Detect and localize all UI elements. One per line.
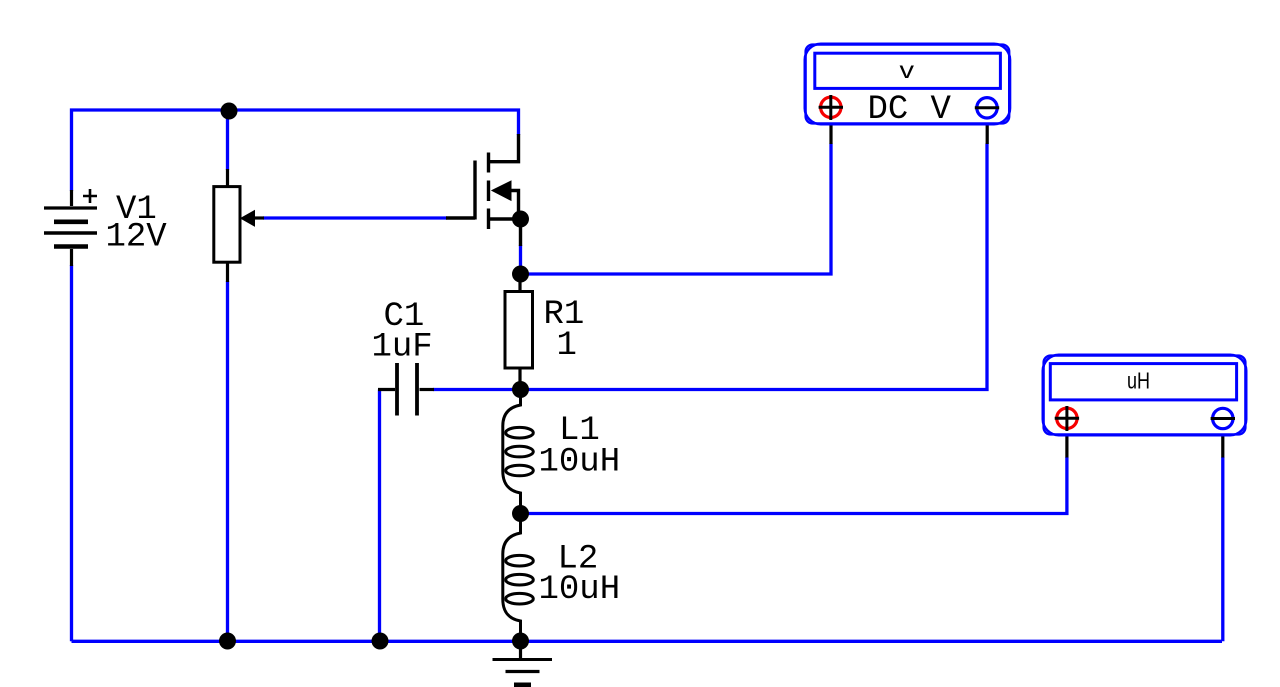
channel bar middle [487, 181, 490, 202]
voltmeter plus terminal [819, 95, 843, 120]
svg-text:uH: uH [1127, 368, 1150, 394]
wire top rail from battery plus up and across to MOSFET drain [72, 110, 519, 191]
capacitor C1 [378, 363, 434, 416]
gate lead [446, 216, 475, 219]
wire C1 right plate to node B [433, 388, 521, 391]
wire battery minus down to ground bus [70, 265, 73, 641]
ground [493, 647, 553, 685]
inductance meter minus terminal [1211, 408, 1235, 428]
inductance meter U2 body [1043, 355, 1246, 435]
wire ground bus across bottom [72, 640, 1223, 643]
drain pin [489, 134, 519, 162]
inductance meter pin stubs [1067, 437, 1223, 458]
svg-text:10uH: 10uH [539, 571, 621, 609]
source pin [519, 219, 522, 246]
potentiometer body [214, 169, 264, 282]
channel bar bottom [487, 209, 490, 230]
junction dot MOSFET source [512, 211, 529, 228]
gate bar [473, 161, 476, 220]
wire C1 left plate down to ground bus [378, 390, 381, 642]
battery V1 [44, 189, 97, 266]
wire gate from potentiometer wiper to MOSFET gate [263, 216, 447, 219]
junction dot ground bus at L2 [512, 633, 529, 650]
svg-text:10uH: 10uH [539, 443, 621, 481]
svg-text:1uF: 1uF [372, 328, 433, 366]
inductor L2 [503, 514, 534, 642]
potentiometer wiper arrow [241, 211, 255, 226]
junction dot node A (R1 top) [512, 266, 529, 283]
voltmeter U1 body [805, 44, 1010, 124]
MOSFET body arrow [492, 181, 511, 200]
resistor R1 [505, 282, 533, 384]
channel bar top [487, 153, 490, 173]
wire node C to uH meter plus terminal [521, 457, 1067, 514]
wire node B to voltmeter minus terminal [521, 144, 988, 390]
junction dot top rail / potentiometer [221, 103, 238, 120]
wire MOSFET source down to node A [519, 245, 522, 270]
voltmeter pin stubs [831, 126, 987, 145]
junction dot node C (L1-L2) [512, 505, 529, 522]
inductor L1 [503, 391, 534, 514]
svg-text:V: V [931, 91, 952, 129]
svg-text:12V: 12V [106, 219, 168, 257]
svg-text:DC: DC [868, 91, 909, 129]
svg-text:v: v [900, 57, 915, 83]
svg-text:1: 1 [557, 327, 577, 365]
wire node A to voltmeter plus terminal [521, 144, 832, 275]
junction dot ground bus at C1 [372, 633, 389, 650]
wire potentiometer bottom to ground bus [226, 281, 229, 641]
junction dot node B (R1 bottom / C1) [512, 381, 529, 398]
body connection to source [489, 191, 521, 220]
junction dot ground bus at potentiometer [219, 633, 236, 650]
inductance meter plus terminal [1055, 406, 1079, 431]
wire uH meter minus terminal down to ground bus [1221, 457, 1224, 641]
wire potentiometer top from rail [226, 111, 229, 170]
MOSFET Q1 [446, 134, 521, 246]
voltmeter minus terminal [975, 98, 999, 118]
